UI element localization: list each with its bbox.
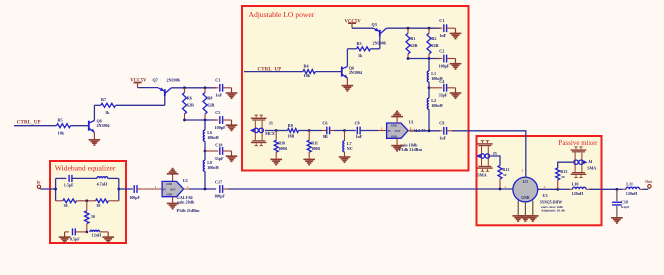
wire R5 to Q8 base xyxy=(71,125,89,127)
svg-text:Out: Out xyxy=(645,179,652,184)
wire CTRL_UP to R4 xyxy=(244,71,303,73)
inductor 4.7nH xyxy=(97,177,108,187)
wire Q7 collector rail xyxy=(171,87,216,89)
ground at Q8 emitter xyxy=(89,140,101,145)
wire node to L8 xyxy=(204,151,206,160)
svg-text:100pF: 100pF xyxy=(215,125,227,130)
resistor R4 xyxy=(303,63,315,77)
ground at C10 xyxy=(226,151,238,161)
svg-text:12nH: 12nH xyxy=(92,233,102,238)
port Out xyxy=(645,179,652,189)
ground under mixer (mid) xyxy=(520,216,532,221)
svg-text:100pF: 100pF xyxy=(129,195,140,200)
svg-text:R5: R5 xyxy=(58,117,63,122)
wire C6 to node xyxy=(330,130,356,132)
svg-text:SMA: SMA xyxy=(587,166,596,171)
wire eq cap to node xyxy=(75,231,86,233)
svg-text:R8: R8 xyxy=(207,96,212,101)
wire node to L2 xyxy=(428,88,430,98)
wire eq coil to ground xyxy=(100,231,109,233)
svg-text:4.7nH: 4.7nH xyxy=(97,182,108,187)
svg-text:50: 50 xyxy=(503,173,507,177)
node eq center xyxy=(85,199,88,202)
wire node to L6 xyxy=(204,120,206,130)
svg-text:C3: C3 xyxy=(215,78,220,83)
node rail-R8 xyxy=(204,86,207,89)
transistor Q7 xyxy=(153,77,180,96)
svg-text:MCX: MCX xyxy=(265,131,275,136)
resistor R7 xyxy=(94,97,164,115)
resistor R12 xyxy=(498,165,509,179)
transistor Q6 xyxy=(342,66,362,79)
svg-text:R7: R7 xyxy=(101,97,106,102)
wire U2 output xyxy=(184,188,217,190)
capacitor 0.5pF xyxy=(70,228,80,241)
svg-text:1nF: 1nF xyxy=(439,136,446,141)
wire L6 to node xyxy=(204,141,206,151)
svg-text:100nH: 100nH xyxy=(207,165,219,170)
label conv loss xyxy=(541,205,563,209)
svg-text:1k: 1k xyxy=(105,110,110,115)
svg-text:J1: J1 xyxy=(269,120,273,125)
ground at C3 xyxy=(226,88,238,98)
resistor R13 xyxy=(556,168,568,180)
wire Q6 collector xyxy=(346,49,348,67)
wire L10 to node xyxy=(589,188,617,190)
svg-text:L11: L11 xyxy=(626,181,633,186)
wire eq vertical res to bottom xyxy=(86,224,88,232)
wire C8 to U1 xyxy=(360,130,387,132)
svg-text:C5: C5 xyxy=(215,110,220,115)
wire eq coil to right node xyxy=(108,177,119,179)
wire C-in to U2 xyxy=(141,188,162,190)
resistor R11 xyxy=(307,131,320,159)
svg-text:GND: GND xyxy=(166,194,172,197)
svg-text:LO: LO xyxy=(523,180,528,184)
wire C9 to mixer LO xyxy=(452,131,526,177)
ground at C4 xyxy=(450,88,462,98)
node rail-R2 xyxy=(428,27,431,30)
wire Q8 collector xyxy=(93,105,95,120)
capacitor 100pF (U2 input) xyxy=(129,185,141,200)
capacitor 1.5pF xyxy=(64,175,74,188)
node R12/mixer xyxy=(499,188,502,191)
node rail-R6 xyxy=(183,86,186,89)
wire Q6 emitter to ground xyxy=(346,78,348,85)
svg-text:C4: C4 xyxy=(439,79,444,84)
svg-text:2N3906: 2N3906 xyxy=(167,77,180,82)
wire R4 to Q6 base xyxy=(315,71,342,73)
wire U2 top pin xyxy=(172,174,174,181)
svg-text:Q3: Q3 xyxy=(372,22,377,27)
ground under mixer (right) xyxy=(527,216,539,221)
wire U1 bottom pin xyxy=(396,138,398,145)
svg-text:100nH: 100nH xyxy=(207,135,219,140)
node R13/mixer xyxy=(556,188,559,191)
ground at R11 xyxy=(303,159,315,164)
ground at C2 xyxy=(450,59,462,69)
equalizer left node bar xyxy=(54,178,57,200)
resistor R9 xyxy=(276,123,298,139)
svg-text:GND: GND xyxy=(391,125,397,128)
svg-text:0.5pF: 0.5pF xyxy=(70,236,80,241)
svg-text:Adjusted: 16 db: Adjusted: 16 db xyxy=(541,209,565,213)
node C10 xyxy=(204,150,207,153)
svg-text:8R: 8R xyxy=(323,134,328,139)
svg-text:33pF: 33pF xyxy=(439,93,448,98)
pin number 1 (U3) xyxy=(504,185,506,189)
wire VCC5V to Q3 emitter xyxy=(352,27,373,29)
svg-text:GND: GND xyxy=(521,196,529,200)
resistor 30 (vertical) xyxy=(85,211,95,224)
wire R9 to node xyxy=(299,130,310,132)
wire eq mid to right node xyxy=(108,200,118,202)
wire L11 to Out xyxy=(642,188,648,190)
svg-text:R1: R1 xyxy=(410,36,415,41)
wire In to equalizer xyxy=(41,188,56,190)
svg-text:C1: C1 xyxy=(439,18,444,23)
net label CTRL_UP (left) xyxy=(17,120,41,125)
svg-text:8.2pF: 8.2pF xyxy=(621,205,629,209)
capacitor C6 xyxy=(322,121,329,139)
node eq bottom xyxy=(85,231,88,234)
svg-text:30: 30 xyxy=(96,203,100,208)
mixer ground pins xyxy=(518,201,533,216)
group box: Passive mixer region xyxy=(477,136,602,225)
inductor L7 (NC) xyxy=(343,131,353,157)
resistor R6 xyxy=(183,88,195,120)
svg-text:Q7: Q7 xyxy=(153,77,158,82)
svg-text:Wideband equalizer: Wideband equalizer xyxy=(55,163,116,172)
resistor 30 (right) xyxy=(96,199,109,208)
wire L2 to U1 output node xyxy=(428,109,430,131)
wire eq mid branch left xyxy=(56,200,63,202)
transistor Q8 xyxy=(89,119,110,133)
capacitor C9 xyxy=(439,121,452,141)
node R9/R11 xyxy=(308,129,311,132)
svg-text:R3: R3 xyxy=(357,41,362,46)
svg-text:18R: 18R xyxy=(288,134,295,139)
svg-text:GND: GND xyxy=(166,183,172,186)
svg-text:IN: IN xyxy=(388,130,391,133)
capacitor C3 xyxy=(213,78,232,98)
node U1 output / L2 feed xyxy=(428,129,431,132)
connector J4 SMA xyxy=(571,147,597,178)
svg-text:100pF: 100pF xyxy=(439,63,450,68)
resistor R1 xyxy=(406,28,419,58)
pin number 2 (U1) xyxy=(410,126,412,130)
wire U1 output xyxy=(408,130,440,132)
svg-text:C8: C8 xyxy=(355,121,360,126)
port In xyxy=(37,179,42,189)
svg-text:P1db 21dBm: P1db 21dBm xyxy=(399,147,422,152)
svg-text:120nH: 120nH xyxy=(572,191,584,196)
wire R7 to Q7 base xyxy=(164,96,166,105)
svg-text:IN: IN xyxy=(163,188,166,191)
capacitor C17 xyxy=(214,179,228,198)
svg-text:62R: 62R xyxy=(187,103,195,108)
wire C17 to mixer xyxy=(228,188,513,190)
svg-text:SMA: SMA xyxy=(477,172,486,177)
svg-text:100R: 100R xyxy=(311,146,320,151)
svg-text:C9: C9 xyxy=(439,121,444,126)
inductor L1 xyxy=(427,71,443,82)
wire J1 to node xyxy=(265,130,276,132)
resistor R10 xyxy=(274,131,287,159)
wire node to L10 xyxy=(558,188,570,190)
svg-text:2N3904: 2N3904 xyxy=(349,70,362,75)
pin number 2 (U2) xyxy=(187,185,189,189)
svg-text:100nH: 100nH xyxy=(431,103,443,108)
capacitor C4 xyxy=(429,79,456,97)
svg-text:2N3904: 2N3904 xyxy=(97,123,110,128)
svg-text:1: 1 xyxy=(155,185,157,189)
svg-text:2: 2 xyxy=(187,185,189,189)
wire R3 to Q3 base xyxy=(379,37,381,49)
svg-text:U1: U1 xyxy=(409,119,414,124)
wire U2 bottom pin xyxy=(172,197,174,204)
wire U1 top pin xyxy=(396,117,398,123)
svg-text:R12: R12 xyxy=(502,167,509,172)
wire node to C6 xyxy=(309,130,326,132)
svg-text:NC: NC xyxy=(347,146,353,151)
node J1/R10 xyxy=(275,129,278,132)
wire CTRL_UP to R5 xyxy=(14,125,57,127)
title: Adjustable LO power xyxy=(249,10,315,19)
node C18 xyxy=(616,188,619,191)
net label CTRL_UP (LO box) xyxy=(258,68,282,73)
svg-text:U2: U2 xyxy=(183,178,188,183)
capacitor C8 xyxy=(355,121,363,139)
svg-text:1nF: 1nF xyxy=(356,134,363,139)
op-amp U2 GALI-84 xyxy=(162,178,200,213)
svg-text:R4: R4 xyxy=(304,63,309,68)
svg-text:R6: R6 xyxy=(187,96,192,101)
svg-text:2N3906: 2N3906 xyxy=(373,41,386,46)
resistor R5 xyxy=(57,117,71,135)
ground at Q6 emitter xyxy=(342,86,354,91)
svg-text:2: 2 xyxy=(410,126,412,130)
svg-text:OUT: OUT xyxy=(170,188,176,191)
resistor R2 xyxy=(427,28,440,58)
svg-text:CTRL_UP: CTRL_UP xyxy=(17,120,41,125)
capacitor C5 xyxy=(213,110,232,130)
svg-text:C10: C10 xyxy=(215,142,222,147)
power VCC5V (left) xyxy=(130,78,147,87)
wire Q3 collector rail xyxy=(386,27,440,29)
wire eq cap to coil xyxy=(72,177,97,179)
wire L1 to node xyxy=(428,82,430,88)
svg-text:Adjustable LO power: Adjustable LO power xyxy=(249,10,315,19)
label SYM25-DHW xyxy=(540,200,563,204)
connector J1 MCX xyxy=(250,115,275,146)
inductor L8 xyxy=(203,160,219,171)
wire L8 to output node xyxy=(204,171,206,189)
svg-text:C2: C2 xyxy=(439,48,444,53)
svg-text:30: 30 xyxy=(64,203,68,208)
wire Q8 emitter to ground xyxy=(93,132,95,139)
ground at C1 xyxy=(450,28,462,38)
svg-text:100pF: 100pF xyxy=(214,194,225,199)
svg-text:J4: J4 xyxy=(588,159,592,164)
equalizer right node bar xyxy=(117,178,120,200)
svg-text:C6: C6 xyxy=(322,121,327,126)
svg-text:62R: 62R xyxy=(431,43,439,48)
svg-text:R2: R2 xyxy=(431,36,436,41)
capacitor C1 xyxy=(437,18,456,38)
ground above U1 xyxy=(391,111,403,116)
wire R6/R8 bottom node xyxy=(183,119,216,122)
inductor 12nH xyxy=(90,230,102,237)
svg-text:SYM25-DHW: SYM25-DHW xyxy=(540,200,563,204)
svg-text:1k: 1k xyxy=(358,53,363,58)
wire + ground eq bottom-left xyxy=(59,232,71,242)
svg-text:1nF: 1nF xyxy=(215,93,222,98)
svg-text:62R: 62R xyxy=(410,43,418,48)
op-amp U1 GALI-84 xyxy=(387,119,426,151)
pin number 2 (U3) xyxy=(544,185,546,189)
connector J3 SMA xyxy=(476,141,497,178)
transistor Q3 xyxy=(372,22,387,46)
group box: Wideband equalizer region xyxy=(50,161,126,243)
wire J4 to R13 xyxy=(558,162,573,168)
ground at R10 xyxy=(270,159,282,164)
title: Wideband equalizer xyxy=(55,163,116,172)
ground at C5 xyxy=(226,120,238,130)
wire eq top branch left xyxy=(56,177,67,179)
svg-text:33pF: 33pF xyxy=(215,156,224,161)
label adjusted xyxy=(541,209,565,213)
svg-text:1.5pF: 1.5pF xyxy=(64,182,74,187)
node rail-R1 xyxy=(407,27,410,30)
wire eq center down xyxy=(86,201,88,211)
inductor L11 xyxy=(617,181,643,195)
group box: Adjustable LO power region xyxy=(242,6,469,171)
wire R1/R2 bottom node xyxy=(407,57,441,60)
capacitor C10 xyxy=(205,142,232,160)
pin number 3 (U3) xyxy=(522,169,524,173)
label U3 xyxy=(543,193,548,198)
svg-text:100R: 100R xyxy=(278,146,287,151)
svg-text:U3: U3 xyxy=(543,193,548,198)
svg-text:C17: C17 xyxy=(215,179,222,184)
svg-text:P1db 21dBm: P1db 21dBm xyxy=(177,208,200,213)
svg-text:R9: R9 xyxy=(288,123,293,128)
svg-text:gain 20db: gain 20db xyxy=(177,199,195,204)
resistor R8 xyxy=(203,88,216,120)
mixer U3 SYM25-DHW xyxy=(513,177,538,202)
wire mixer to node xyxy=(538,188,558,190)
wire equalizer to C-in xyxy=(119,188,133,190)
inductor L6 xyxy=(203,130,219,141)
svg-text:1nF: 1nF xyxy=(439,33,446,38)
resistor 30 (left) xyxy=(63,199,77,208)
pin number 1 (U2) xyxy=(155,185,157,189)
svg-text:Passive mixer: Passive mixer xyxy=(558,139,598,147)
node U2 output / L8 feed xyxy=(204,188,207,191)
capacitor C18 xyxy=(612,189,629,217)
node C4 xyxy=(428,86,431,89)
ground eq bottom-right xyxy=(102,232,114,242)
svg-text:1: 1 xyxy=(381,126,383,130)
svg-text:62R: 62R xyxy=(207,103,215,108)
svg-text:GND: GND xyxy=(391,135,397,138)
ground at L7 xyxy=(339,157,351,162)
svg-text:120nH: 120nH xyxy=(626,191,638,196)
ground under mixer (left) xyxy=(512,216,524,221)
inductor L10 xyxy=(570,181,590,195)
svg-text:OUT: OUT xyxy=(395,130,401,133)
ground at C18 xyxy=(611,218,623,223)
wire J3 to R12 xyxy=(490,156,500,165)
title: Passive mixer xyxy=(558,139,598,147)
capacitor C2 xyxy=(437,48,456,68)
wire eq bottom left xyxy=(65,231,69,233)
svg-text:50: 50 xyxy=(561,175,565,179)
wire R12 to mixer line xyxy=(499,179,501,189)
svg-text:10k: 10k xyxy=(58,131,65,136)
wire R13 to mixer line xyxy=(557,180,559,189)
pin number 1 (U1) xyxy=(381,126,383,130)
svg-text:10k: 10k xyxy=(304,73,311,78)
wire VCC5V to Q7 emitter xyxy=(138,87,159,89)
svg-text:J3: J3 xyxy=(493,151,497,156)
power VCC5V (LO box) xyxy=(345,19,362,28)
svg-text:R13: R13 xyxy=(560,169,567,174)
svg-text:30: 30 xyxy=(91,214,95,219)
resistor R3 xyxy=(347,41,379,58)
wire eq mid middle xyxy=(76,200,95,202)
ground below U2 xyxy=(167,203,179,208)
svg-text:L10: L10 xyxy=(572,181,579,186)
ground below U1 xyxy=(391,146,403,151)
node C6/L7 xyxy=(343,129,346,132)
inductor L2 xyxy=(427,98,443,109)
wire node to L1 xyxy=(428,59,430,72)
ground above U2 xyxy=(167,169,179,174)
